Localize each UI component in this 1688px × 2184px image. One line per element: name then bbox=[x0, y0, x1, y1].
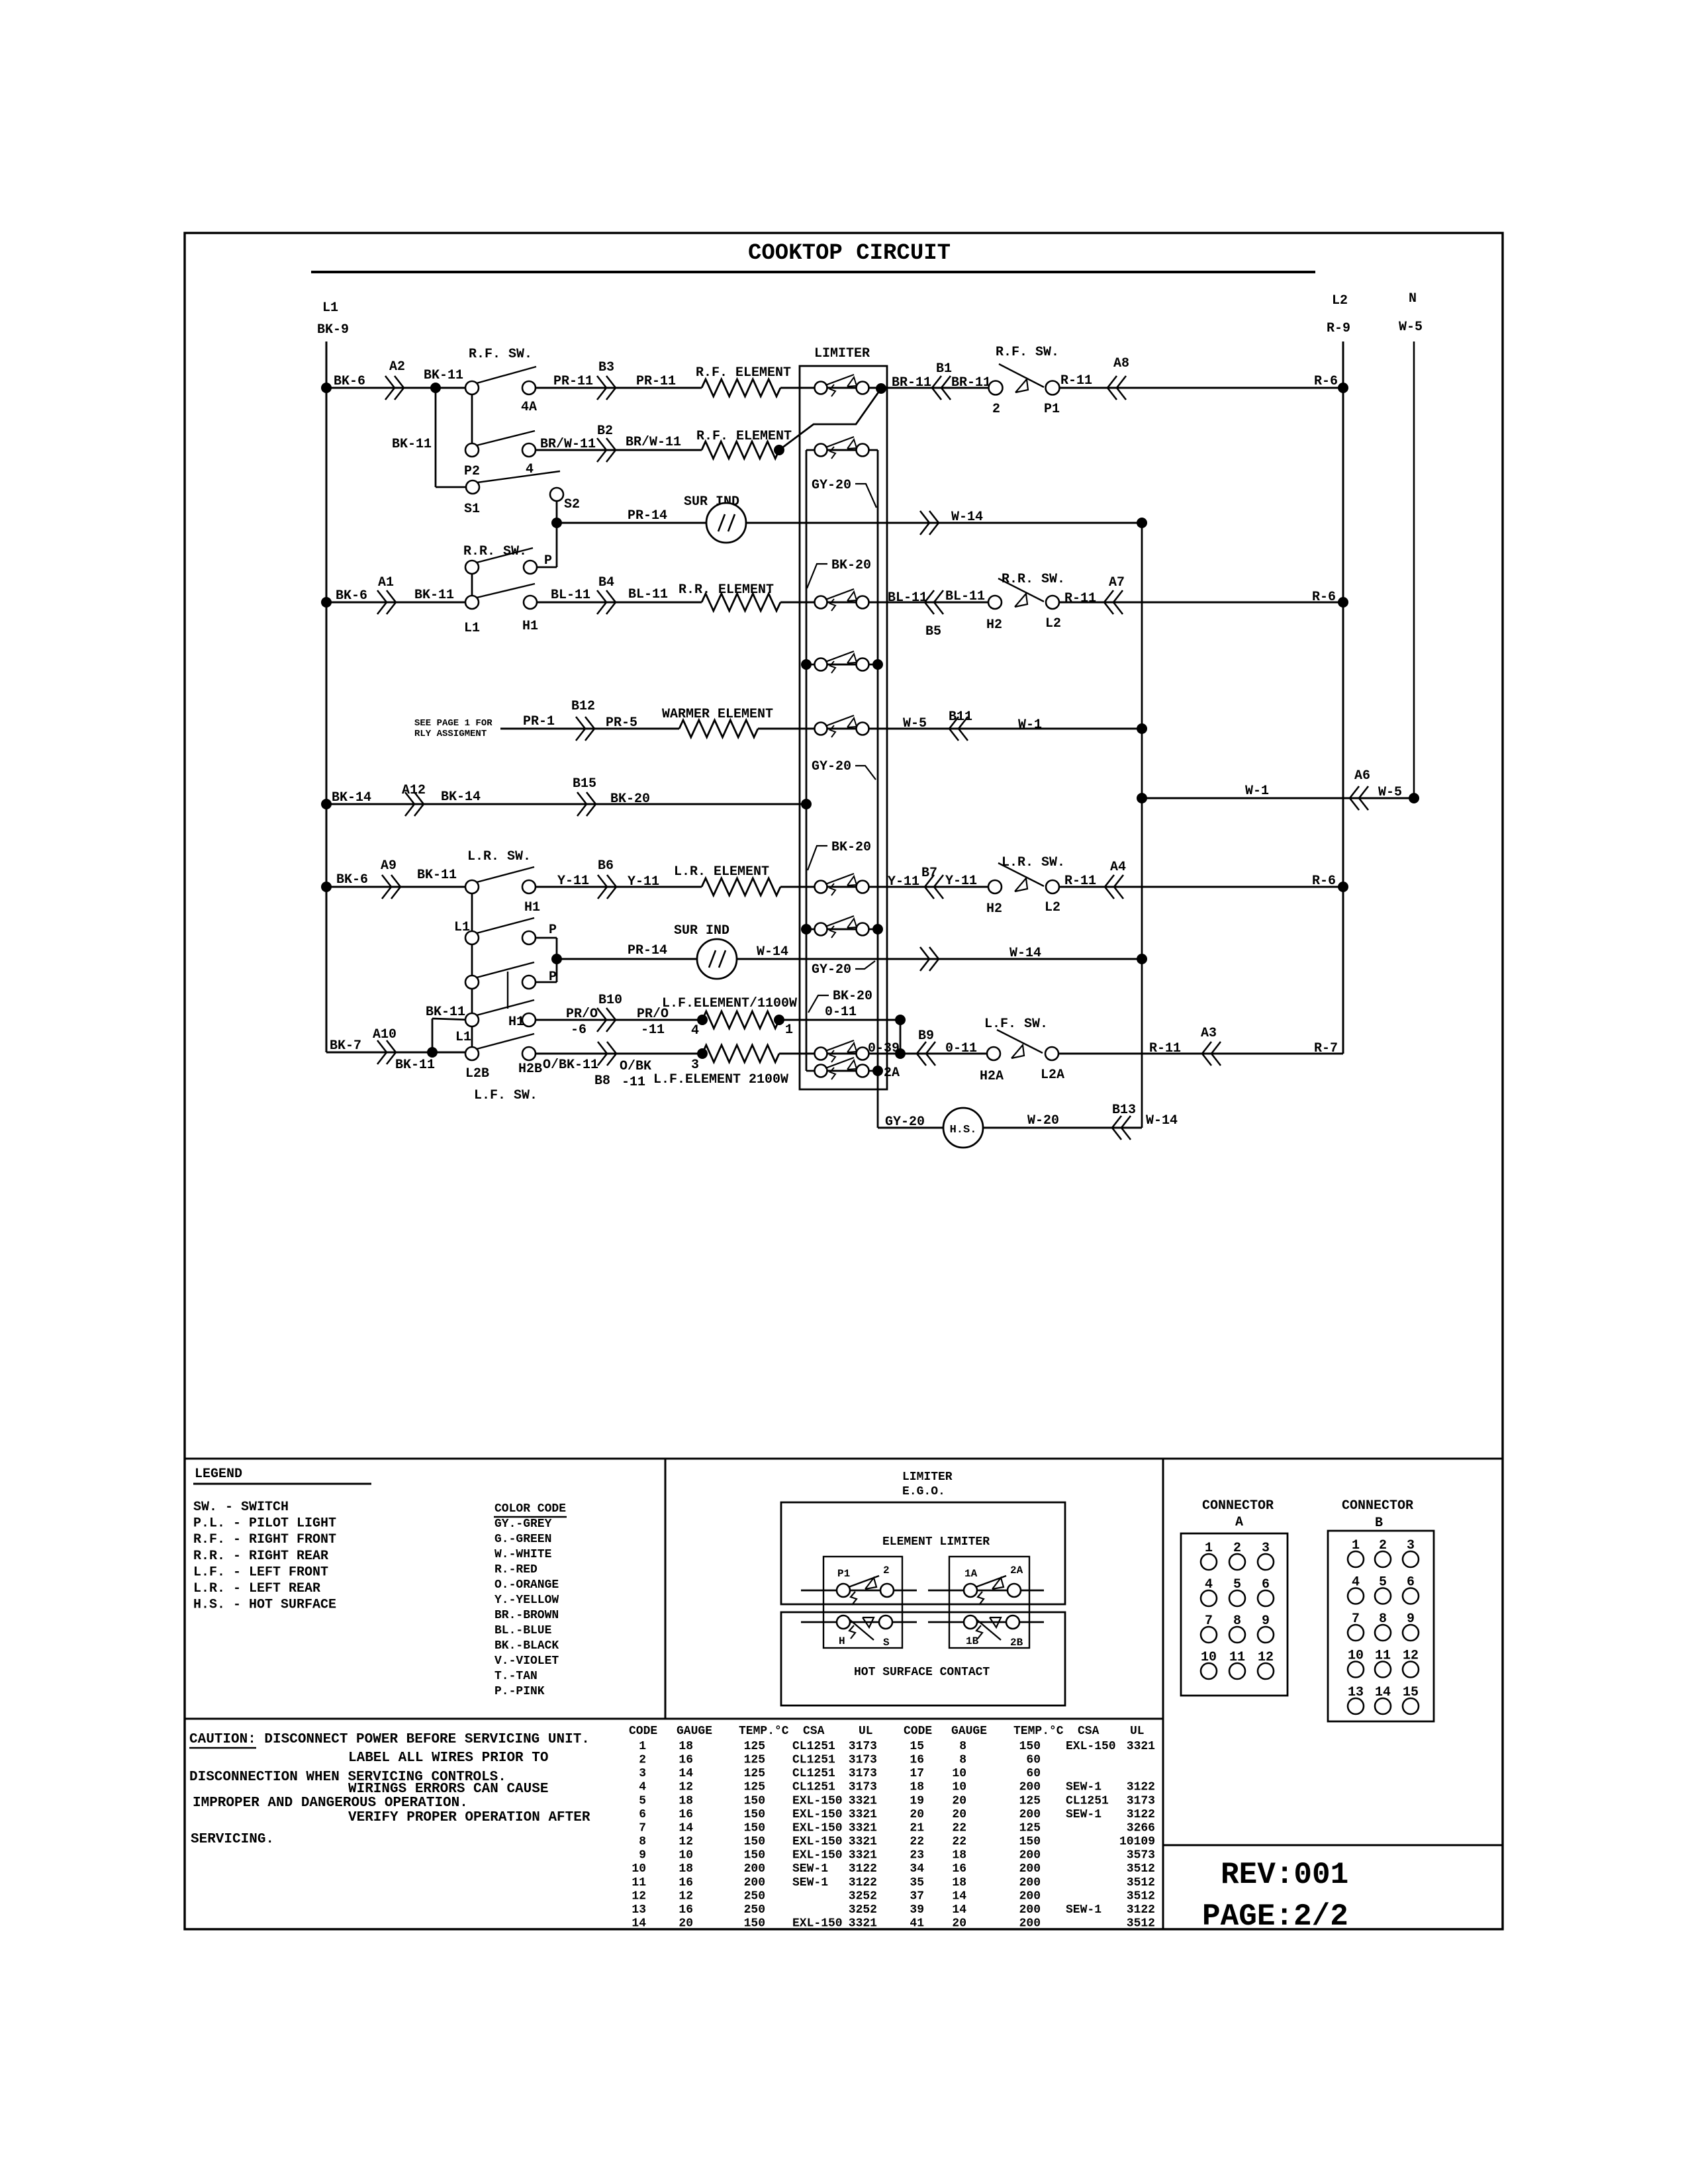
svg-text:P1: P1 bbox=[1044, 402, 1060, 417]
svg-text:200: 200 bbox=[1019, 1917, 1041, 1931]
svg-text:12: 12 bbox=[679, 1889, 693, 1903]
svg-text:1: 1 bbox=[639, 1740, 646, 1753]
node R-6 bbox=[1338, 882, 1348, 892]
svg-text:A: A bbox=[1235, 1515, 1243, 1530]
svg-text:3122: 3122 bbox=[849, 1876, 877, 1889]
switch S1 bbox=[466, 480, 479, 494]
switch R.R. SW. pole L1-H1 bbox=[530, 602, 702, 604]
switch L.F. chain pole 2 bbox=[530, 981, 557, 983]
svg-text:1A: 1A bbox=[964, 1568, 978, 1580]
svg-text:0-11: 0-11 bbox=[945, 1041, 977, 1056]
svg-text:TEMP.°C: TEMP.°C bbox=[1013, 1725, 1064, 1738]
svg-text:W-5: W-5 bbox=[1399, 320, 1423, 335]
svg-text:IMPROPER AND DANGEROUS OPERATI: IMPROPER AND DANGEROUS OPERATION. bbox=[193, 1796, 468, 1811]
svg-text:P.L. - PILOT LIGHT: P.L. - PILOT LIGHT bbox=[193, 1516, 336, 1531]
svg-text:V.-VIOLET: V.-VIOLET bbox=[494, 1655, 559, 1668]
svg-text:34: 34 bbox=[910, 1862, 924, 1876]
svg-text:3173: 3173 bbox=[1127, 1794, 1155, 1807]
svg-text:3122: 3122 bbox=[1127, 1903, 1155, 1917]
svg-text:BK-6: BK-6 bbox=[334, 374, 365, 389]
wire BL-11 through limiter bbox=[780, 602, 995, 604]
svg-text:W.-WHITE: W.-WHITE bbox=[494, 1548, 552, 1561]
svg-text:BK-20: BK-20 bbox=[831, 840, 871, 855]
svg-text:SEW-1: SEW-1 bbox=[1066, 1808, 1102, 1821]
svg-text:4: 4 bbox=[691, 1023, 699, 1038]
svg-text:W-5: W-5 bbox=[1378, 785, 1402, 800]
svg-text:LIMITER: LIMITER bbox=[814, 346, 870, 361]
svg-text:A1: A1 bbox=[378, 575, 394, 590]
node bbox=[1137, 793, 1147, 803]
svg-text:L1: L1 bbox=[455, 1030, 471, 1045]
svg-text:13: 13 bbox=[632, 1903, 646, 1917]
svg-text:EXL-150: EXL-150 bbox=[792, 1822, 843, 1835]
svg-text:P: P bbox=[549, 923, 557, 938]
svg-text:H1: H1 bbox=[508, 1015, 524, 1030]
svg-text:GY-20: GY-20 bbox=[812, 962, 851, 978]
svg-text:W-5: W-5 bbox=[903, 716, 927, 731]
svg-text:9: 9 bbox=[639, 1849, 646, 1862]
svg-text:A2: A2 bbox=[389, 359, 405, 375]
svg-text:CL1251: CL1251 bbox=[792, 1740, 835, 1753]
svg-text:2A: 2A bbox=[1010, 1565, 1023, 1576]
border frame bbox=[185, 233, 1503, 1929]
node R-6 bbox=[1338, 383, 1348, 393]
node bbox=[801, 924, 812, 934]
svg-text:B12: B12 bbox=[571, 699, 595, 714]
svg-text:A10: A10 bbox=[373, 1027, 397, 1042]
svg-text:RLY ASSIGMENT: RLY ASSIGMENT bbox=[414, 729, 487, 739]
svg-text:3321: 3321 bbox=[1127, 1740, 1155, 1753]
svg-text:41: 41 bbox=[910, 1917, 924, 1931]
svg-text:B15: B15 bbox=[573, 776, 596, 792]
wire BK-11 to L1 bbox=[432, 1019, 434, 1052]
node junction bbox=[321, 597, 332, 608]
svg-text:5: 5 bbox=[639, 1794, 646, 1807]
svg-text:250: 250 bbox=[744, 1889, 765, 1903]
svg-text:COLOR CODE: COLOR CODE bbox=[494, 1502, 566, 1516]
svg-text:REV:001: REV:001 bbox=[1221, 1858, 1348, 1892]
svg-text:SW. - SWITCH: SW. - SWITCH bbox=[193, 1500, 289, 1515]
svg-text:H2: H2 bbox=[986, 617, 1002, 633]
svg-text:BK-7: BK-7 bbox=[330, 1038, 361, 1054]
svg-text:SEW-1: SEW-1 bbox=[1066, 1903, 1102, 1917]
svg-text:B13: B13 bbox=[1112, 1103, 1136, 1118]
svg-text:L.F. SW.: L.F. SW. bbox=[984, 1017, 1048, 1032]
svg-text:14: 14 bbox=[679, 1767, 693, 1780]
svg-text:BK-11: BK-11 bbox=[426, 1005, 465, 1020]
svg-text:W-14: W-14 bbox=[951, 510, 983, 525]
svg-text:O.-ORANGE: O.-ORANGE bbox=[494, 1578, 559, 1592]
svg-text:200: 200 bbox=[1019, 1903, 1041, 1917]
svg-text:CL1251: CL1251 bbox=[792, 1781, 835, 1794]
svg-text:L.F.ELEMENT/1100W: L.F.ELEMENT/1100W bbox=[662, 996, 797, 1011]
svg-text:BK-11: BK-11 bbox=[417, 868, 457, 883]
connector B5 bbox=[934, 590, 943, 614]
svg-text:39: 39 bbox=[910, 1903, 924, 1917]
node PR-14 bbox=[551, 518, 562, 528]
svg-text:BK-11: BK-11 bbox=[395, 1058, 435, 1073]
svg-text:3173: 3173 bbox=[849, 1767, 877, 1780]
wire R-11 R-6 bbox=[1053, 602, 1343, 604]
wire R-11 R-6 bbox=[1053, 886, 1343, 888]
wire GY-20 inner loop right bbox=[877, 450, 879, 1128]
node BK-11 bbox=[427, 1047, 438, 1058]
wire jog to BR-11 node bbox=[779, 388, 881, 450]
svg-text:PR-14: PR-14 bbox=[628, 943, 667, 958]
svg-text:BR.-BROWN: BR.-BROWN bbox=[494, 1609, 559, 1622]
svg-text:EXL-150: EXL-150 bbox=[792, 1808, 843, 1821]
svg-text:3512: 3512 bbox=[1127, 1917, 1155, 1931]
svg-text:20: 20 bbox=[679, 1917, 693, 1931]
node BK-20 on limiter bbox=[801, 799, 812, 809]
svg-text:EXL-150: EXL-150 bbox=[792, 1849, 843, 1862]
node 0-11 bbox=[895, 1015, 906, 1025]
svg-text:LABEL ALL WIRES PRIOR TO: LABEL ALL WIRES PRIOR TO bbox=[348, 1751, 548, 1766]
svg-text:0-39: 0-39 bbox=[868, 1041, 900, 1056]
svg-text:BK-20: BK-20 bbox=[610, 792, 650, 807]
svg-text:R-6: R-6 bbox=[1314, 374, 1338, 389]
svg-text:1: 1 bbox=[785, 1023, 793, 1038]
limiter contact row I bbox=[806, 1070, 878, 1072]
svg-text:EXL-150: EXL-150 bbox=[792, 1835, 843, 1848]
svg-text:8: 8 bbox=[959, 1754, 966, 1767]
svg-text:A3: A3 bbox=[1201, 1026, 1217, 1041]
svg-text:R.F. ELEMENT: R.F. ELEMENT bbox=[696, 365, 791, 381]
wire 0-11 bbox=[779, 1019, 900, 1021]
svg-text:60: 60 bbox=[1026, 1754, 1041, 1767]
node 4 bbox=[697, 1015, 708, 1025]
node BK-11 bbox=[430, 383, 441, 393]
svg-text:B1: B1 bbox=[936, 361, 952, 377]
node W-14 bbox=[1137, 954, 1147, 964]
svg-text:3512: 3512 bbox=[1127, 1889, 1155, 1903]
svg-text:3321: 3321 bbox=[849, 1822, 877, 1835]
wire BK-7 row bbox=[326, 1052, 472, 1054]
svg-text:B7: B7 bbox=[921, 866, 937, 881]
svg-text:L.F. - LEFT FRONT: L.F. - LEFT FRONT bbox=[193, 1565, 328, 1580]
svg-text:R.R. - RIGHT REAR: R.R. - RIGHT REAR bbox=[193, 1549, 328, 1564]
svg-text:S1: S1 bbox=[464, 502, 480, 517]
svg-text:18: 18 bbox=[679, 1794, 693, 1807]
svg-text:150: 150 bbox=[744, 1849, 765, 1862]
svg-text:GY.-GREY: GY.-GREY bbox=[494, 1518, 552, 1531]
svg-text:Y-11: Y-11 bbox=[628, 874, 659, 889]
wire BK-6 row L.R. bbox=[326, 886, 472, 888]
svg-text:CSA: CSA bbox=[1078, 1725, 1100, 1738]
limiter contact 1A-2A bbox=[928, 1590, 1044, 1592]
svg-text:H2B: H2B bbox=[518, 1062, 542, 1077]
wire S2 to PR-14 node bbox=[556, 494, 558, 567]
svg-text:BK-6: BK-6 bbox=[336, 588, 367, 604]
svg-text:L1: L1 bbox=[464, 621, 480, 636]
svg-text:19: 19 bbox=[910, 1794, 924, 1807]
svg-text:10109: 10109 bbox=[1119, 1835, 1155, 1848]
connector W-14 bbox=[920, 947, 929, 971]
svg-text:VERIFY PROPER OPERATION AFTER: VERIFY PROPER OPERATION AFTER bbox=[348, 1810, 590, 1825]
svg-text:3512: 3512 bbox=[1127, 1876, 1155, 1889]
svg-text:3173: 3173 bbox=[849, 1781, 877, 1794]
svg-text:B6: B6 bbox=[598, 858, 614, 874]
svg-text:18: 18 bbox=[679, 1740, 693, 1753]
connector B8 bbox=[598, 1042, 607, 1066]
svg-text:GY-20: GY-20 bbox=[812, 759, 851, 774]
svg-text:A12: A12 bbox=[402, 783, 426, 798]
svg-text:3: 3 bbox=[639, 1767, 646, 1780]
svg-text:BR-11: BR-11 bbox=[951, 375, 991, 390]
svg-text:L2: L2 bbox=[1045, 616, 1061, 631]
hot surface contact box bbox=[781, 1612, 1065, 1706]
svg-text:GY-20: GY-20 bbox=[885, 1115, 925, 1130]
svg-text:14: 14 bbox=[632, 1917, 646, 1931]
svg-text:-11: -11 bbox=[641, 1023, 665, 1038]
limiter contact row B bbox=[827, 449, 856, 451]
contact S2 bbox=[550, 488, 563, 501]
wire jumper to 0-39 bbox=[900, 1020, 902, 1054]
svg-text:BL-11: BL-11 bbox=[888, 590, 927, 606]
svg-text:PR-11: PR-11 bbox=[553, 374, 593, 389]
svg-text:BL-11: BL-11 bbox=[945, 589, 985, 604]
svg-text:T.-TAN: T.-TAN bbox=[494, 1670, 538, 1683]
svg-text:L2: L2 bbox=[1332, 293, 1348, 308]
svg-text:B8: B8 bbox=[594, 1073, 610, 1089]
svg-text:L.R. SW.: L.R. SW. bbox=[1002, 855, 1065, 870]
svg-text:200: 200 bbox=[1019, 1808, 1041, 1821]
svg-text:200: 200 bbox=[1019, 1876, 1041, 1889]
limiter contact row E bbox=[827, 728, 856, 730]
svg-text:14: 14 bbox=[679, 1822, 693, 1835]
svg-text:BK-11: BK-11 bbox=[392, 437, 432, 452]
svg-text:PR-14: PR-14 bbox=[628, 508, 667, 523]
limiter contact row C bbox=[827, 602, 856, 604]
svg-text:2: 2 bbox=[992, 402, 1000, 417]
svg-text:10: 10 bbox=[632, 1862, 646, 1876]
svg-text:UL: UL bbox=[859, 1725, 873, 1738]
node bbox=[872, 924, 883, 934]
svg-text:WIRINGS ERRORS CAN CAUSE: WIRINGS ERRORS CAN CAUSE bbox=[348, 1782, 548, 1797]
svg-text:150: 150 bbox=[1019, 1740, 1041, 1753]
svg-text:CODE: CODE bbox=[629, 1725, 657, 1738]
svg-text:EXL-150: EXL-150 bbox=[792, 1794, 843, 1807]
svg-text:17: 17 bbox=[910, 1767, 924, 1780]
svg-text:CL1251: CL1251 bbox=[792, 1754, 835, 1767]
svg-text:16: 16 bbox=[910, 1754, 924, 1767]
svg-text:L.R. - LEFT REAR: L.R. - LEFT REAR bbox=[193, 1581, 320, 1596]
svg-text:21: 21 bbox=[910, 1822, 924, 1835]
svg-text:150: 150 bbox=[744, 1822, 765, 1835]
svg-text:R-11: R-11 bbox=[1064, 874, 1096, 889]
svg-text:P: P bbox=[544, 553, 552, 569]
svg-text:18: 18 bbox=[910, 1781, 924, 1794]
node BR-11 bbox=[876, 383, 886, 394]
svg-text:W-1: W-1 bbox=[1245, 784, 1269, 799]
svg-text:200: 200 bbox=[1019, 1862, 1041, 1876]
node on N bus bbox=[1409, 793, 1419, 803]
svg-text:P: P bbox=[549, 970, 557, 985]
svg-text:PAGE:2/2: PAGE:2/2 bbox=[1202, 1899, 1348, 1934]
svg-text:R.F. - RIGHT FRONT: R.F. - RIGHT FRONT bbox=[193, 1532, 336, 1547]
node 1 bbox=[774, 1015, 784, 1025]
svg-text:COOKTOP CIRCUIT: COOKTOP CIRCUIT bbox=[748, 241, 951, 266]
wire BK-11 to S1 bbox=[435, 388, 437, 487]
svg-text:3573: 3573 bbox=[1127, 1849, 1155, 1862]
limiter block left bbox=[823, 1557, 902, 1648]
svg-text:8: 8 bbox=[639, 1835, 646, 1848]
svg-text:R-11: R-11 bbox=[1149, 1041, 1181, 1056]
svg-text:W-14: W-14 bbox=[1009, 946, 1041, 961]
limiter contact row A bbox=[827, 387, 856, 389]
svg-text:11: 11 bbox=[632, 1876, 646, 1889]
svg-text:A4: A4 bbox=[1110, 860, 1126, 875]
svg-text:60: 60 bbox=[1026, 1767, 1041, 1780]
svg-text:3321: 3321 bbox=[849, 1917, 877, 1931]
svg-text:H.S.: H.S. bbox=[950, 1124, 977, 1136]
limiter contact row G bbox=[806, 929, 878, 931]
svg-text:EXL-150: EXL-150 bbox=[1066, 1740, 1116, 1753]
svg-text:10: 10 bbox=[952, 1781, 966, 1794]
svg-text:3266: 3266 bbox=[1127, 1822, 1155, 1835]
node bbox=[895, 1048, 906, 1059]
svg-text:E.G.O.: E.G.O. bbox=[902, 1485, 945, 1498]
wire L.F. chain vertical bbox=[471, 938, 473, 1054]
svg-text:125: 125 bbox=[744, 1740, 765, 1753]
svg-text:10: 10 bbox=[679, 1849, 693, 1862]
svg-text:L.F. SW.: L.F. SW. bbox=[474, 1088, 538, 1103]
svg-text:0-11: 0-11 bbox=[825, 1005, 857, 1020]
svg-text:3122: 3122 bbox=[1127, 1808, 1155, 1821]
svg-text:3321: 3321 bbox=[849, 1808, 877, 1821]
svg-text:L2: L2 bbox=[1045, 900, 1060, 915]
wire arm link bbox=[507, 972, 508, 1009]
svg-text:150: 150 bbox=[744, 1917, 765, 1931]
svg-text:W-14: W-14 bbox=[1146, 1113, 1178, 1128]
svg-text:W-20: W-20 bbox=[1027, 1113, 1059, 1128]
svg-text:3252: 3252 bbox=[849, 1889, 877, 1903]
svg-text:B10: B10 bbox=[598, 993, 622, 1008]
svg-text:PR/O: PR/O bbox=[566, 1007, 598, 1022]
svg-text:22: 22 bbox=[952, 1822, 966, 1835]
limiter contact P1-2 bbox=[801, 1590, 917, 1592]
limiter contact row H bbox=[827, 1053, 856, 1055]
svg-text:12: 12 bbox=[632, 1889, 646, 1903]
svg-text:TEMP.°C: TEMP.°C bbox=[739, 1725, 789, 1738]
svg-text:12: 12 bbox=[679, 1781, 693, 1794]
wire W-14 up bbox=[1141, 523, 1143, 1128]
svg-text:BL-11: BL-11 bbox=[628, 587, 668, 602]
svg-text:H.S. - HOT SURFACE: H.S. - HOT SURFACE bbox=[193, 1598, 336, 1613]
svg-text:R-11: R-11 bbox=[1060, 373, 1092, 388]
svg-text:PR-5: PR-5 bbox=[606, 715, 637, 731]
svg-text:16: 16 bbox=[952, 1862, 966, 1876]
svg-text:20: 20 bbox=[952, 1917, 966, 1931]
wire W-1 to N bus bbox=[1142, 797, 1414, 799]
svg-text:W-14: W-14 bbox=[757, 944, 788, 960]
svg-text:A8: A8 bbox=[1113, 356, 1129, 371]
svg-text:GAUGE: GAUGE bbox=[677, 1725, 712, 1738]
svg-text:SEW-1: SEW-1 bbox=[792, 1862, 828, 1876]
svg-text:H1: H1 bbox=[522, 619, 538, 634]
wire PR-14 / W-14 row 2 bbox=[557, 958, 1142, 960]
limiter contact 1B-2B bbox=[928, 1621, 1044, 1623]
node L1 bus BK-9 bbox=[326, 341, 328, 1052]
svg-text:125: 125 bbox=[744, 1767, 765, 1780]
svg-text:S2: S2 bbox=[564, 497, 580, 512]
svg-text:G.-GREEN: G.-GREEN bbox=[494, 1533, 551, 1546]
wire W-5 / W-1 bbox=[758, 728, 1142, 730]
svg-text:12: 12 bbox=[679, 1835, 693, 1848]
svg-text:125: 125 bbox=[744, 1754, 765, 1767]
svg-text:B9: B9 bbox=[918, 1028, 934, 1044]
limiter contact H-S bbox=[801, 1621, 917, 1623]
wire BK-14 row bbox=[326, 803, 806, 805]
svg-text:7: 7 bbox=[639, 1822, 646, 1835]
svg-text:CONNECTOR: CONNECTOR bbox=[1342, 1498, 1413, 1514]
svg-text:H2A: H2A bbox=[980, 1069, 1004, 1084]
svg-text:BR/W-11: BR/W-11 bbox=[626, 435, 681, 450]
svg-text:WARMER ELEMENT: WARMER ELEMENT bbox=[662, 707, 773, 722]
svg-text:16: 16 bbox=[679, 1808, 693, 1821]
svg-text:14: 14 bbox=[952, 1903, 966, 1917]
svg-text:2A: 2A bbox=[884, 1066, 900, 1081]
limiter box bbox=[800, 366, 887, 1089]
svg-text:CL1251: CL1251 bbox=[1066, 1794, 1109, 1807]
svg-text:3173: 3173 bbox=[849, 1740, 877, 1753]
svg-text:Y-11: Y-11 bbox=[945, 874, 977, 889]
svg-text:CL1251: CL1251 bbox=[792, 1767, 835, 1780]
svg-text:BK-20: BK-20 bbox=[833, 989, 872, 1004]
svg-text:BR/W-11: BR/W-11 bbox=[540, 437, 596, 452]
limiter block right bbox=[949, 1557, 1029, 1648]
node junction bbox=[321, 383, 332, 393]
svg-text:P2: P2 bbox=[464, 464, 480, 479]
svg-text:-6: -6 bbox=[571, 1023, 586, 1038]
svg-text:200: 200 bbox=[744, 1862, 765, 1876]
svg-text:SEW-1: SEW-1 bbox=[792, 1876, 828, 1889]
svg-text:B4: B4 bbox=[598, 575, 614, 590]
wire BR-11 through limiter bbox=[780, 387, 996, 389]
svg-text:14: 14 bbox=[952, 1889, 966, 1903]
node junction bbox=[321, 799, 332, 809]
svg-text:A7: A7 bbox=[1109, 575, 1125, 590]
svg-text:LEGEND: LEGEND bbox=[195, 1467, 242, 1482]
svg-text:16: 16 bbox=[679, 1754, 693, 1767]
svg-text:3122: 3122 bbox=[1127, 1781, 1155, 1794]
svg-text:15: 15 bbox=[910, 1740, 924, 1753]
svg-text:O/BK-11: O/BK-11 bbox=[543, 1058, 598, 1073]
svg-text:GAUGE: GAUGE bbox=[951, 1725, 987, 1738]
svg-text:18: 18 bbox=[952, 1849, 966, 1862]
svg-text:BR-11: BR-11 bbox=[892, 375, 931, 390]
svg-text:Y-11: Y-11 bbox=[557, 874, 589, 889]
svg-text:150: 150 bbox=[1019, 1835, 1041, 1848]
svg-text:CSA: CSA bbox=[803, 1725, 825, 1738]
svg-text:16: 16 bbox=[679, 1876, 693, 1889]
svg-text:HOT SURFACE CONTACT: HOT SURFACE CONTACT bbox=[854, 1666, 990, 1679]
svg-text:R-6: R-6 bbox=[1312, 874, 1336, 889]
svg-text:B: B bbox=[1375, 1516, 1383, 1531]
svg-text:R.F. SW.: R.F. SW. bbox=[469, 347, 532, 362]
svg-text:EXL-150: EXL-150 bbox=[792, 1917, 843, 1931]
svg-text:W-1: W-1 bbox=[1018, 717, 1042, 733]
node R-6 bbox=[1338, 597, 1348, 608]
svg-text:SERVICING.: SERVICING. bbox=[191, 1832, 274, 1847]
svg-text:16: 16 bbox=[679, 1903, 693, 1917]
svg-text:N: N bbox=[1409, 291, 1417, 306]
svg-text:PR-1: PR-1 bbox=[523, 714, 555, 729]
connector W-14 bbox=[920, 511, 929, 535]
svg-text:L2B: L2B bbox=[465, 1066, 489, 1081]
svg-text:200: 200 bbox=[1019, 1781, 1041, 1794]
svg-text:8: 8 bbox=[959, 1740, 966, 1753]
